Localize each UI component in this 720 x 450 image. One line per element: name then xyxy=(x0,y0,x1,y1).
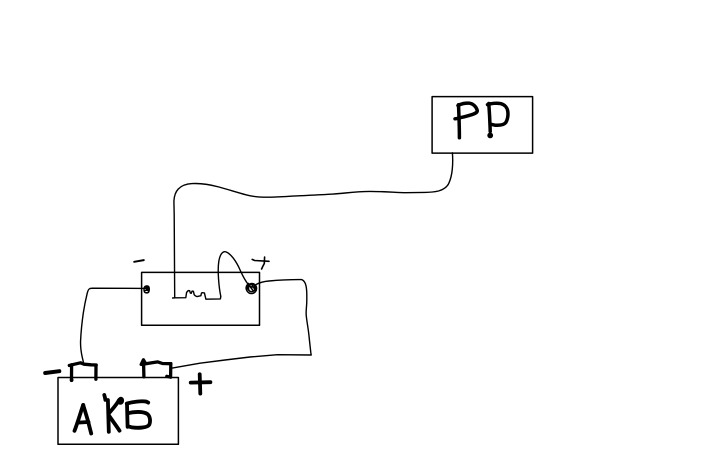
battery - clamp (left terminal) xyxy=(69,363,96,381)
coil squiggle inside relay xyxy=(173,291,221,300)
label PP on U1 xyxy=(455,103,508,138)
wire from relay + screw to battery + clamp xyxy=(172,280,312,369)
wire from relay - post to battery - clamp xyxy=(81,288,147,362)
relay box (regulator relay body) xyxy=(142,272,260,325)
label + (battery positive) xyxy=(191,374,211,393)
battery + clamp (right terminal) xyxy=(141,360,171,377)
label - (battery negative) xyxy=(45,371,59,373)
blob at bottom of second P xyxy=(487,133,493,139)
arc wire from coil up over to + screw xyxy=(218,252,249,297)
wire from PP down and left to relay coil xyxy=(174,153,453,298)
label AKB on battery xyxy=(75,395,151,434)
box U1 (voltage regulator PP) xyxy=(432,97,532,154)
screw terminal + (right post of relay) xyxy=(246,283,256,293)
terminal node - (left post of relay) xyxy=(143,285,150,293)
battery box AKB xyxy=(58,378,178,445)
label - (above left relay post) xyxy=(134,260,144,262)
label + (above right relay post) xyxy=(252,257,269,269)
